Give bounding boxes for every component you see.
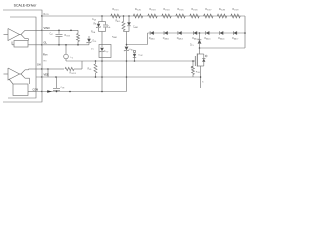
diode Daac7 TVS: [233, 31, 237, 35]
wire block output: [28, 91, 36, 93]
resistor Rvce5: [176, 14, 186, 18]
IC inner block: [8, 17, 36, 98]
wire column B diode drop: [128, 16, 130, 22]
node column A gate rail: [101, 60, 103, 62]
resistor Rvce1: [111, 14, 121, 18]
pin dot COM: [41, 91, 42, 92]
svg-text:GH: GH: [37, 64, 41, 67]
wire column A mid: [101, 32, 103, 45]
resistor Rvee: [95, 61, 97, 64]
svg-text:RVCE5: RVCE5: [177, 8, 183, 11]
node COM column A junction: [101, 91, 103, 93]
svg-text:VISO: VISO: [44, 26, 50, 30]
diode D3: [127, 22, 131, 26]
node gate rail adjust junction: [134, 60, 136, 62]
svg-text:CAAC: CAAC: [133, 26, 139, 29]
svg-text:RGON: RGON: [65, 35, 71, 37]
svg-text:DAAC7: DAAC7: [232, 37, 238, 40]
diode Dz1 zener: [98, 22, 100, 24]
wire link to bottom driver: [9, 79, 13, 84]
wire pair tie bottom: [124, 31, 130, 33]
node VISO cap junction: [58, 30, 60, 32]
arrow COM rail: [47, 90, 52, 93]
op-amp U2 bottom driver amplifier: [8, 68, 20, 80]
node gate-off resistor junction: [77, 44, 79, 46]
IC outline SCALE-iDriver outer box: [3, 10, 42, 102]
node drain junction: [199, 47, 201, 49]
wire source down: [200, 66, 202, 88]
resistor Rvce2: [133, 14, 143, 18]
svg-text:RVCE3: RVCE3: [149, 8, 155, 11]
resistor Rvce8: [217, 14, 227, 18]
node VEE resistor junction: [95, 76, 97, 78]
svg-text:GL: GL: [44, 41, 48, 45]
wire clamp diode chain H2: [148, 32, 246, 34]
resistor Rvce3: [148, 14, 158, 18]
svg-text:DAAC5: DAAC5: [204, 37, 210, 40]
capacitor Cvi: [58, 30, 60, 34]
node chain to drain branch: [199, 32, 201, 34]
svg-text:RACL: RACL: [116, 20, 121, 23]
monitoring block bottom: [13, 84, 28, 96]
wire input bottom driver: [4, 73, 9, 75]
op-amp U1 top driver amplifier: [8, 29, 20, 41]
node clamp junction: [126, 44, 128, 46]
resistor Rgon: [77, 30, 79, 33]
wire column B mid: [126, 32, 128, 45]
capacitor Cvee: [56, 77, 58, 88]
node COM cap junction: [56, 91, 58, 93]
node gate-on branch: [47, 68, 49, 70]
svg-text:RVCE4: RVCE4: [163, 8, 169, 11]
wire gate rail riser: [81, 61, 83, 69]
wire column A drop: [101, 16, 103, 22]
wire column A lower: [101, 58, 103, 92]
node VEE cap junction: [55, 76, 57, 78]
body diode Q1: [203, 54, 205, 59]
output stage top driver: [21, 30, 25, 38]
svg-text:RGOFF: RGOFF: [70, 73, 76, 75]
svg-text:DAAC2: DAAC2: [163, 37, 169, 40]
node gate: [192, 60, 194, 62]
svg-text:DAAC4: DAAC4: [192, 37, 198, 40]
node top-rail junction A: [101, 15, 103, 17]
svg-text:RVCE9: RVCE9: [232, 8, 238, 11]
node VISO mid junction: [70, 30, 72, 32]
wire gate-on path 2: [48, 68, 64, 70]
wire clamp link riser: [147, 33, 149, 45]
pin dot GH: [41, 68, 42, 69]
diode Dtvs2 zener: [126, 45, 128, 47]
pin dot VCE: [41, 15, 42, 16]
svg-text:RVCE6: RVCE6: [191, 8, 197, 11]
resistor Rz: [122, 22, 125, 31]
pin dot VISO: [41, 30, 42, 31]
diode Dcl clamp to chain: [199, 33, 201, 40]
wire branch GL to probe: [65, 45, 67, 54]
node column B gate rail: [126, 60, 128, 62]
diode Daac1 TVS: [150, 31, 154, 35]
pin dot GL: [41, 44, 42, 45]
wire parallel tie top: [99, 21, 106, 23]
diode Dtvs1 zener: [101, 45, 103, 48]
wire parallel tie bottom: [99, 31, 106, 33]
diode Daac6 TVS: [220, 31, 224, 35]
diode Daac4 TVS: [193, 31, 197, 35]
svg-text:VEE: VEE: [44, 73, 49, 77]
diode Daac5 TVS: [206, 31, 210, 35]
diode Daac3 TVS: [178, 31, 182, 35]
svg-text:DAAC1: DAAC1: [149, 37, 155, 40]
resistor Rge gate-source: [192, 61, 194, 67]
svg-text:DAAC3: DAAC3: [177, 37, 183, 40]
svg-text:DLM: DLM: [139, 55, 144, 57]
diode Daac2 TVS: [164, 31, 168, 35]
transistor Q1 SiC MOSFET: [199, 48, 201, 54]
svg-text:RVCE7: RVCE7: [205, 8, 211, 11]
diode Dgl zener: [88, 36, 90, 39]
node column A vee rail: [101, 76, 103, 78]
node column B vee rail: [126, 76, 128, 78]
svg-text:DAAC6: DAAC6: [218, 37, 224, 40]
node COM second junction: [69, 91, 71, 93]
resistor Rvce6: [190, 14, 200, 18]
wire gate rail H4: [66, 60, 193, 62]
resistor Rvce9: [231, 14, 241, 18]
feedback block top: [14, 41, 28, 48]
node top-rail junction C: [128, 15, 130, 17]
svg-text:RVCE1: RVCE1: [112, 8, 118, 11]
svg-text:RAAC: RAAC: [112, 36, 118, 39]
wire column B resistor drop: [123, 16, 125, 22]
output stage bottom driver: [21, 70, 25, 78]
svg-text:RVCE2: RVCE2: [135, 8, 141, 11]
resistor Rvce4: [162, 14, 172, 18]
diode Dadj: [134, 53, 136, 54]
TVS module box: [99, 45, 111, 58]
wire branch to vee: [47, 69, 49, 77]
svg-text:COM: COM: [33, 89, 39, 92]
wire drain to right edge H3: [200, 47, 246, 49]
wire top rail H1: [42, 15, 245, 17]
terminal circle clamp adjust: [133, 50, 135, 52]
wire clamp link: [127, 44, 148, 46]
resistor Rgoff: [65, 67, 74, 70]
node GL branch: [65, 44, 67, 46]
node top-rail junction B: [123, 15, 125, 17]
resistor Rvce7: [204, 14, 214, 18]
capacitor Ca: [105, 22, 107, 25]
wire VEE rail: [36, 76, 200, 78]
node source: [200, 76, 202, 78]
pin dot VEE: [41, 76, 42, 77]
wire COM rail: [36, 91, 127, 93]
wire VISO rail: [36, 29, 78, 31]
node gate-off cap junction: [58, 44, 60, 46]
node gate rail junction R: [95, 60, 97, 62]
node chain right corner: [244, 32, 246, 34]
wire gate-on path: [42, 68, 48, 70]
svg-text:SCALE-iDriver: SCALE-iDriver: [14, 4, 38, 8]
wire GL internal: [11, 42, 13, 45]
probe circle gate rail: [64, 54, 69, 59]
wire input top driver: [4, 34, 9, 36]
wire right edge down: [244, 16, 246, 48]
svg-text:RVCE8: RVCE8: [219, 8, 225, 11]
wire gate-off rail: [42, 44, 89, 46]
